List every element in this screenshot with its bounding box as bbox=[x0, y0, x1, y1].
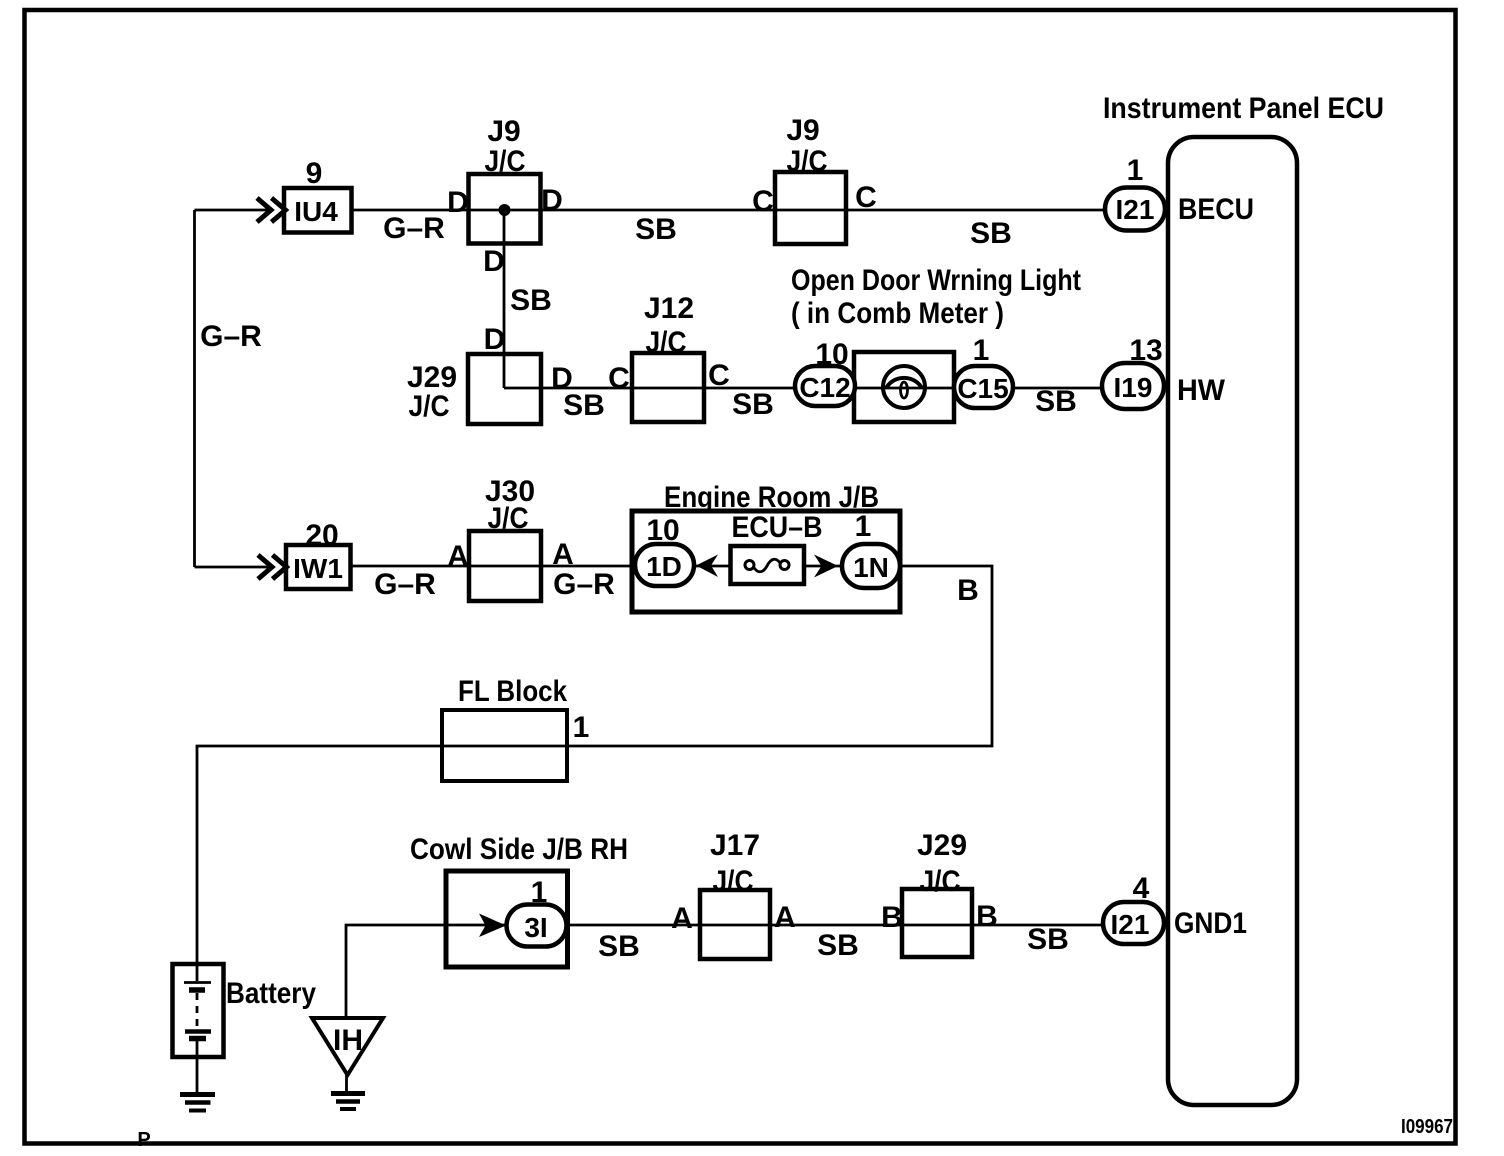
svg-text:Engine Room J/B: Engine Room J/B bbox=[664, 481, 879, 514]
svg-text:Cowl Side J/B RH: Cowl Side J/B RH bbox=[410, 833, 628, 866]
svg-text:10: 10 bbox=[646, 514, 679, 547]
svg-text:C: C bbox=[608, 362, 630, 395]
svg-text:I21: I21 bbox=[1116, 194, 1155, 225]
svg-text:Open Door Wrning Light: Open Door Wrning Light bbox=[791, 264, 1081, 297]
svg-text:1: 1 bbox=[1127, 154, 1144, 187]
svg-text:A: A bbox=[447, 540, 469, 573]
svg-text:J9: J9 bbox=[786, 114, 819, 147]
svg-text:1: 1 bbox=[531, 876, 548, 909]
arrow chevrons into IW1 bbox=[258, 555, 272, 579]
svg-text:J/C: J/C bbox=[787, 145, 828, 178]
svg-text:IH: IH bbox=[333, 1024, 363, 1057]
svg-text:C: C bbox=[855, 181, 877, 214]
FL Block box bbox=[442, 710, 567, 781]
svg-text:D: D bbox=[541, 184, 563, 217]
svg-text:( in Comb Meter ): ( in Comb Meter ) bbox=[791, 297, 1004, 330]
svg-text:SB: SB bbox=[732, 388, 774, 421]
wire vertical drop from J9 dot to J29 bbox=[503, 210, 506, 388]
svg-text:SB: SB bbox=[970, 217, 1012, 250]
junction box J9 J/C (first) bbox=[469, 174, 541, 244]
arrowhead left (into 1D) bbox=[696, 555, 718, 578]
connector oval 1D bbox=[635, 544, 694, 586]
svg-text:BECU: BECU bbox=[1178, 193, 1254, 226]
svg-text:13: 13 bbox=[1129, 334, 1162, 367]
svg-text:I19: I19 bbox=[1114, 372, 1153, 403]
fuse symbol bbox=[745, 561, 754, 570]
svg-text:1D: 1D bbox=[646, 551, 682, 582]
svg-text:B: B bbox=[881, 901, 903, 934]
node junction dot in J9 bbox=[499, 204, 511, 216]
svg-text:D: D bbox=[447, 186, 469, 219]
connector oval 1N bbox=[842, 544, 900, 588]
bulb box (comb meter) bbox=[854, 352, 954, 422]
svg-text:I21: I21 bbox=[1111, 909, 1150, 940]
wire row2: J29 to I19 bbox=[504, 387, 1110, 390]
svg-text:C: C bbox=[752, 185, 774, 218]
svg-text:SB: SB bbox=[817, 929, 859, 962]
arrow chevrons into IU4 bbox=[257, 198, 271, 222]
svg-text:9: 9 bbox=[306, 157, 323, 190]
svg-text:J9: J9 bbox=[487, 115, 520, 148]
svg-text:C: C bbox=[708, 359, 730, 392]
svg-text:A: A bbox=[552, 538, 574, 571]
svg-text:SB: SB bbox=[1035, 385, 1077, 418]
svg-text:GND1: GND1 bbox=[1174, 907, 1247, 940]
battery bbox=[173, 964, 224, 1057]
svg-text:HW: HW bbox=[1177, 374, 1226, 407]
svg-text:J29: J29 bbox=[917, 829, 967, 862]
svg-text:B: B bbox=[957, 574, 979, 607]
Instrument Panel ECU body bbox=[1168, 137, 1297, 1105]
arrowhead right (into 1N) bbox=[814, 555, 838, 578]
svg-text:A: A bbox=[774, 901, 796, 934]
wire IU4 row feed bbox=[195, 209, 273, 212]
svg-text:J/C: J/C bbox=[409, 390, 450, 423]
svg-text:IW1: IW1 bbox=[293, 553, 343, 584]
ground (battery) bbox=[180, 1092, 215, 1097]
arrowhead right (into 3I) bbox=[479, 914, 506, 938]
svg-text:3I: 3I bbox=[524, 912, 547, 943]
wire row3: IW1 to 1D bbox=[350, 565, 640, 568]
connector oval I21 (GND1) bbox=[1103, 902, 1164, 944]
svg-text:P: P bbox=[137, 1129, 150, 1151]
svg-text:I09967: I09967 bbox=[1401, 1116, 1453, 1138]
svg-text:SB: SB bbox=[563, 389, 605, 422]
wire IW1 row feed bbox=[195, 566, 273, 569]
svg-text:J/C: J/C bbox=[646, 326, 687, 359]
fuse box ECU-B bbox=[731, 546, 805, 584]
svg-text:4: 4 bbox=[1133, 872, 1150, 905]
wire G-R left vertical from IU4 row to IW1 row bbox=[193, 210, 196, 567]
svg-text:10: 10 bbox=[815, 338, 848, 371]
ground triangle IH bbox=[312, 1018, 383, 1075]
connector oval I19 (HW) bbox=[1102, 363, 1164, 409]
svg-text:SB: SB bbox=[598, 930, 640, 963]
junction box J29 J/C (bottom) bbox=[902, 889, 972, 957]
svg-text:B: B bbox=[976, 900, 998, 933]
IW1 connector box bbox=[286, 545, 351, 589]
junction box J30 J/C bbox=[469, 531, 541, 601]
ground (IH) bbox=[331, 1091, 365, 1096]
svg-text:SB: SB bbox=[510, 284, 552, 317]
svg-text:G–R: G–R bbox=[200, 320, 262, 353]
svg-text:D: D bbox=[484, 323, 506, 356]
wire B: 1N right, down, across FL Block, down to battery bbox=[197, 566, 992, 964]
svg-text:G–R: G–R bbox=[553, 568, 615, 601]
svg-text:1: 1 bbox=[573, 711, 590, 744]
junction box J12 J/C bbox=[632, 353, 704, 422]
svg-text:ECU–B: ECU–B bbox=[732, 511, 823, 544]
Cowl Side J/B RH box bbox=[446, 871, 568, 967]
svg-text:IU4: IU4 bbox=[294, 196, 338, 227]
Engine Room J/B box bbox=[632, 511, 900, 612]
wire fuse to 1N bbox=[803, 565, 845, 568]
svg-text:SB: SB bbox=[635, 213, 677, 246]
svg-text:J17: J17 bbox=[710, 829, 760, 862]
connector oval 3I bbox=[507, 905, 567, 947]
bulb lamp symbol bbox=[883, 366, 925, 408]
svg-text:Battery: Battery bbox=[226, 977, 316, 1010]
svg-text:J/C: J/C bbox=[488, 502, 529, 535]
wire row4: IH riser and to 3I arrow bbox=[346, 925, 506, 1018]
svg-text:FL Block: FL Block bbox=[458, 675, 567, 708]
svg-text:C15: C15 bbox=[957, 373, 1008, 404]
svg-text:A: A bbox=[671, 902, 693, 935]
svg-text:Instrument Panel ECU: Instrument Panel ECU bbox=[1103, 92, 1384, 125]
svg-text:G–R: G–R bbox=[383, 212, 445, 245]
connector oval C15 bbox=[954, 366, 1013, 408]
svg-text:20: 20 bbox=[305, 519, 338, 552]
IU4 connector box bbox=[284, 188, 352, 233]
junction box J9 J/C (second) bbox=[775, 172, 846, 244]
svg-text:J/C: J/C bbox=[713, 865, 754, 898]
wire row1: IU4 to I21 bbox=[351, 209, 1110, 212]
svg-text:C12: C12 bbox=[799, 372, 850, 403]
svg-text:1N: 1N bbox=[853, 552, 889, 583]
junction box J29 J/C (top) bbox=[468, 354, 541, 424]
svg-text:J/C: J/C bbox=[485, 145, 526, 178]
wire 1D to fuse bbox=[692, 565, 732, 568]
svg-text:J/C: J/C bbox=[920, 865, 961, 898]
svg-text:D: D bbox=[483, 245, 505, 278]
svg-text:1: 1 bbox=[855, 510, 872, 543]
connector oval C12 bbox=[795, 366, 855, 406]
connector oval I21 (BECU) bbox=[1105, 188, 1165, 231]
svg-text:J12: J12 bbox=[644, 292, 694, 325]
svg-text:G–R: G–R bbox=[374, 568, 436, 601]
wire row4: 3I to I21 bottom bbox=[565, 924, 1108, 927]
svg-text:1: 1 bbox=[973, 334, 990, 367]
junction box J17 J/C bbox=[700, 890, 770, 959]
svg-text:SB: SB bbox=[1027, 923, 1069, 956]
